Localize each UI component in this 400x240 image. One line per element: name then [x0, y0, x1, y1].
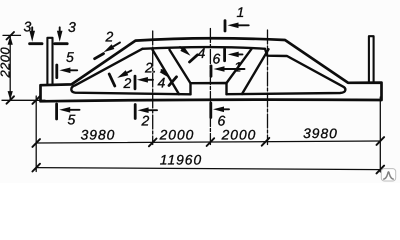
section mark 1 top: bar [224, 21, 227, 31]
svg-text:11960: 11960 [160, 152, 202, 167]
svg-text:5: 5 [66, 49, 74, 65]
section mark 5 lower: arrow shaft [66, 109, 80, 111]
arrowhead 3 left down [29, 31, 35, 42]
svg-text:4: 4 [158, 74, 166, 90]
arrowhead 6 trapezoid [228, 52, 239, 58]
label 1 top [23, 4, 244, 129]
section mark 3 left: tick [30, 42, 42, 45]
slash tick at slab-bottom/ext crossing [32, 96, 40, 104]
section mark 6 trapezoid: arrow shaft [234, 53, 243, 55]
axis line B (x=267.5) [267, 30, 269, 145]
pedestal [191, 83, 227, 94]
section mark 3 right: arrow shaft [59, 27, 61, 34]
section mark 4 mid: arrow shaft [162, 70, 165, 73]
svg-text:6: 6 [217, 113, 225, 129]
arrowhead 4 trapezoid [180, 47, 190, 56]
svg-text:1: 1 [234, 60, 242, 75]
section mark 6 trapezoid: bar [223, 49, 226, 60]
dimension row 1 line [36, 141, 380, 143]
section mark 1 top: arrow shaft [234, 24, 249, 26]
arrowhead 4 mid [160, 68, 170, 78]
svg-text:6: 6 [213, 51, 221, 67]
axis line center (x=210.4) [209, 29, 211, 145]
arrowhead 2 lower [138, 107, 149, 113]
arrowhead 2200 up [8, 36, 13, 45]
right post [369, 36, 374, 83]
row1 slash ticks [32, 137, 384, 147]
svg-text:2000: 2000 [221, 128, 257, 143]
watermark logo box [381, 169, 395, 181]
arrowhead 2200 down [8, 91, 13, 100]
svg-text:3980: 3980 [81, 127, 116, 142]
arrowhead 5 upper [59, 68, 70, 74]
section mark 5 upper: arrow shaft [66, 69, 77, 71]
beam outline [41, 38, 382, 101]
left post [47, 38, 52, 85]
section mark 3 right: tick [55, 42, 67, 45]
svg-text:3: 3 [68, 19, 76, 35]
section mark 2 mid tick [109, 74, 115, 86]
svg-text:2200: 2200 [0, 47, 13, 79]
arrowhead 2 mid [117, 70, 128, 78]
right strut left edge [227, 49, 252, 83]
section mark 2 mid-b: bar [134, 76, 137, 89]
svg-text:2: 2 [140, 112, 149, 128]
vertical dim 2200 line [9, 36, 11, 100]
svg-text:3: 3 [24, 18, 32, 34]
svg-text:2000: 2000 [159, 127, 195, 142]
section mark 3 left: arrow shaft [31, 27, 33, 34]
left strut left edge [153, 50, 180, 94]
svg-text:4: 4 [198, 45, 206, 61]
inner top line [142, 47, 265, 49]
left strut right edge [170, 50, 191, 83]
dimension row 2 line (11960) [36, 168, 380, 170]
section mark 6 lower: arrow shaft [219, 108, 229, 110]
section mark 2 mid-b: arrow shaft [144, 79, 153, 81]
arrowhead 1 lower [214, 66, 225, 72]
section mark 2 lower: bar [134, 105, 137, 119]
svg-text:1: 1 [237, 4, 245, 20]
section mark 6 lower: bar [209, 103, 212, 118]
section mark 5 upper: bar [55, 65, 58, 78]
section mark 5 lower: bar [55, 104, 58, 119]
arrowhead 2 mid-b [137, 77, 148, 83]
extension line right (x=380.3) [379, 97, 381, 172]
section mark 2 lower: arrow shaft [144, 109, 157, 111]
svg-text:2: 2 [123, 75, 132, 91]
section mark 4 mid: tick [169, 77, 177, 86]
svg-text:2.: 2. [144, 59, 157, 75]
svg-text:5: 5 [67, 111, 75, 127]
right slab top and slot [227, 49, 346, 94]
arrowhead 2 upper-left [104, 44, 115, 52]
section mark 4 trapezoid: arrow shaft [180, 47, 184, 50]
left inner slope and slot [71, 49, 190, 95]
svg-text:2: 2 [105, 28, 114, 44]
section mark 2 mid arrow shaft [126, 71, 132, 74]
row2 slash ticks [32, 164, 384, 174]
svg-text:3980: 3980 [303, 126, 338, 141]
arrowhead 5 lower [59, 107, 70, 113]
section mark 2 upper-left: tick [95, 54, 104, 59]
arrowhead 6 lower [213, 107, 224, 113]
2200 top extension [3, 34, 21, 36]
axis line A (x=152.7) [152, 31, 154, 145]
arrowhead 3 right down [57, 31, 63, 42]
right strut right edge [242, 49, 269, 94]
section mark 1 lower: bar [210, 66, 213, 76]
2200 slashes [7, 32, 15, 40]
section mark 2 upper-left: arrow shaft [109, 43, 120, 50]
extension line left (x=36.2) [35, 96, 37, 172]
section mark 1 lower: arrow shaft [220, 68, 245, 70]
2200 bottom extension [2, 99, 45, 101]
section mark 4 trapezoid: tick [190, 55, 198, 62]
arrowhead 1 top [228, 23, 239, 29]
